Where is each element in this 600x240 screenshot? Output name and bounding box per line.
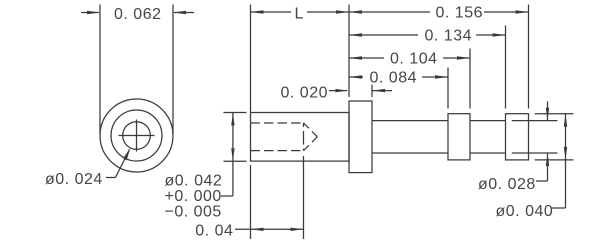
collar flange	[349, 101, 372, 173]
right ext line flange top	[535, 113, 574, 115]
svg-text:ø0. 028: ø0. 028	[478, 176, 536, 193]
dim 0.020 right arrow	[372, 89, 392, 92]
dim 0.04	[235, 228, 304, 231]
dim 0.134	[349, 33, 506, 36]
shaft bottom edge segment 1	[372, 152, 448, 154]
svg-text:0. 156: 0. 156	[436, 5, 483, 22]
svg-text:ø0. 024: ø0. 024	[45, 171, 103, 188]
drill point upper dashed diagonal	[304, 123, 318, 137]
center mark vertical	[136, 120, 138, 152]
svg-text:ø0. 042: ø0. 042	[165, 172, 223, 189]
svg-text:0. 04: 0. 04	[195, 223, 233, 240]
extension line collar right	[371, 85, 373, 98]
hidden hole top line (dashed)	[251, 122, 304, 124]
svg-text:0. 084: 0. 084	[370, 70, 417, 87]
flange 3 (pin tip)	[506, 114, 529, 160]
extension line collar left	[348, 5, 350, 98]
extension line flange2 left	[447, 68, 449, 109]
shaft top edge segment 1	[372, 120, 448, 122]
dia 0.042 dim vertical line with arrows	[231, 113, 234, 197]
end view middle circle (body dia)	[111, 110, 162, 161]
dim 0.062 right arrow	[173, 11, 194, 14]
hidden hole bottom line (dashed)	[251, 150, 304, 152]
dia 0.040 connector	[552, 207, 566, 209]
extension line right tangent	[172, 5, 174, 135]
leader for hole dia 0.024	[106, 148, 130, 178]
extension line pin end	[528, 5, 530, 109]
shaft top edge through pin tip + extension	[512, 120, 558, 122]
extension line body left	[250, 5, 252, 113]
extension line flange2 right	[469, 49, 471, 109]
dim L	[251, 10, 350, 13]
end view outer circle (flange dia 0.062)	[100, 99, 173, 172]
dia 0.028 connector	[536, 180, 548, 182]
extension line flange3 left	[505, 26, 507, 109]
dim 0.062 left arrow	[81, 11, 100, 14]
svg-text:0. 134: 0. 134	[425, 28, 472, 45]
dia 0.040 dim line with arrows	[564, 114, 567, 208]
extension line left tangent	[99, 5, 101, 135]
drill point lower dashed diagonal	[304, 137, 318, 151]
dia 0.042 dim ticks	[223, 112, 246, 114]
end view inner circle (hole dia 0.024)	[123, 122, 151, 150]
dim 0.020 leader arrow	[329, 89, 349, 92]
shaft top edge segment 2	[470, 120, 506, 122]
dim 0.156	[349, 10, 529, 13]
flange 2	[448, 114, 470, 160]
dim 0.104	[349, 56, 470, 59]
svg-text:0. 104: 0. 104	[390, 51, 437, 68]
dia 0.042 connector	[221, 195, 233, 197]
svg-text:0. 020: 0. 020	[281, 85, 328, 102]
shaft bottom edge segment 2	[470, 152, 506, 154]
body outline (sleeve)	[251, 113, 350, 162]
dia 0.028 dim lower arrow	[546, 153, 549, 181]
extension line hole start (0.04 left)	[250, 165, 252, 239]
hidden hole depth line (dashed vertical)	[303, 123, 305, 151]
dim 0.084	[349, 75, 448, 78]
extension line hole depth (0.04 right)	[303, 156, 305, 239]
center mark horizontal	[119, 135, 155, 137]
right ext line flange bottom	[535, 159, 574, 161]
svg-text:ø0. 040: ø0. 040	[496, 203, 554, 220]
svg-text:−0. 005: −0. 005	[165, 204, 222, 221]
shaft bottom edge through pin tip + extension	[512, 152, 558, 154]
dia 0.028 dim upper arrow	[546, 101, 549, 120]
svg-text:+0. 000: +0. 000	[165, 188, 222, 205]
svg-text:L: L	[295, 6, 304, 23]
svg-text:0. 062: 0. 062	[114, 6, 161, 23]
